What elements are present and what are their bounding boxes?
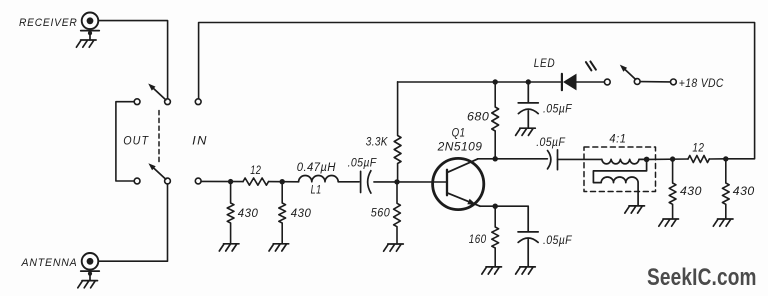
wire C5 to T1 primary xyxy=(558,158,602,160)
ground (receiver jack) xyxy=(76,40,96,47)
svg-text:0.47µH: 0.47µH xyxy=(297,160,336,174)
svg-text:IN: IN xyxy=(192,133,208,147)
resistor R4 3.3K xyxy=(394,82,401,182)
node T1 output junction xyxy=(644,157,650,163)
switch S2 pole terminal xyxy=(634,79,640,85)
node rail-R6 junction xyxy=(493,79,498,84)
transistor Q1 2N5109 xyxy=(433,158,484,209)
switch S1a terminal OUT-top xyxy=(134,99,140,105)
ground (R10) xyxy=(713,219,733,226)
svg-text:+18 VDC: +18 VDC xyxy=(679,76,724,90)
svg-text:560: 560 xyxy=(371,206,390,220)
capacitor C4 .05uF supply bypass xyxy=(518,82,538,128)
capacitor C5 .05uF coupling xyxy=(548,150,558,170)
node B junction xyxy=(280,179,285,184)
resistor R1 430 xyxy=(227,182,234,244)
resistor R5 560 xyxy=(394,182,401,244)
wire collector line to C5 xyxy=(478,158,548,160)
ground (C4) xyxy=(516,128,536,135)
resistor R10 430 xyxy=(722,159,729,219)
resistor R6 680 xyxy=(492,82,499,159)
svg-text:.05µF: .05µF xyxy=(543,233,573,247)
wire S2 pole to +18VDC terminal xyxy=(640,81,670,83)
switch S1a terminal IN-top xyxy=(195,99,201,105)
capacitor C3 .05uF emitter bypass xyxy=(518,206,538,267)
svg-text:OUT: OUT xyxy=(123,133,149,147)
node C junction xyxy=(394,179,399,184)
svg-text:2N5109: 2N5109 xyxy=(437,140,483,154)
connector J2 ANTENNA jack xyxy=(81,253,100,281)
LED D1 xyxy=(562,74,604,91)
capacitor C1 .05uF xyxy=(361,171,371,193)
node emitter junction xyxy=(493,204,498,209)
svg-text:3.3K: 3.3K xyxy=(366,134,388,148)
svg-text:Q1: Q1 xyxy=(452,126,466,140)
ground (R1) xyxy=(219,244,239,251)
resistor R7 160 xyxy=(492,206,499,267)
svg-text:430: 430 xyxy=(733,184,755,198)
wire S1b IN terminal to input node A xyxy=(201,180,243,182)
resistor R3 430 xyxy=(279,182,286,244)
wire receiver jack to switch S1a pole xyxy=(98,21,167,99)
svg-text:L1: L1 xyxy=(311,183,322,197)
svg-text:.05µF: .05µF xyxy=(543,101,573,115)
wire C1 to node C to Q1 base xyxy=(374,181,447,183)
ground (T1 secondary) xyxy=(625,206,645,213)
transformer T1 secondary winding xyxy=(593,159,646,205)
node E junction xyxy=(723,156,728,161)
wire S1b pole to antenna jack xyxy=(98,184,167,261)
ground (R5) xyxy=(384,244,404,251)
inductor L1 0.47uH xyxy=(299,176,339,182)
terminal +18 VDC xyxy=(671,79,677,85)
svg-text:12: 12 xyxy=(692,141,704,155)
switch S1b pole terminal xyxy=(165,178,171,184)
ground (R8) xyxy=(659,219,679,226)
svg-text:LED: LED xyxy=(534,56,555,70)
switch S1a pole terminal xyxy=(165,99,171,105)
svg-text:430: 430 xyxy=(238,206,258,220)
wire T1 to node D xyxy=(649,158,688,160)
svg-text:12: 12 xyxy=(250,163,261,177)
wire R2 to node B to L1 xyxy=(269,181,299,183)
svg-text:430: 430 xyxy=(680,184,702,198)
svg-text:.05µF: .05µF xyxy=(348,155,378,169)
mechanical linkage (dashed) xyxy=(158,111,160,164)
connector J1 RECEIVER jack xyxy=(81,12,100,40)
switch S1b blade arrow xyxy=(154,168,166,179)
wire supply rail (top of R4 across to LED) xyxy=(398,81,561,83)
node A junction xyxy=(228,179,233,184)
switch S1a blade arrow xyxy=(154,89,166,100)
resistor R9 12 xyxy=(688,156,709,163)
ground (R3) xyxy=(269,244,289,251)
svg-text:SeekIC.com: SeekIC.com xyxy=(647,265,757,291)
node D junction xyxy=(670,156,675,161)
svg-text:4:1: 4:1 xyxy=(609,131,626,145)
wire R9 to node E xyxy=(709,158,726,160)
svg-text:160: 160 xyxy=(469,232,487,246)
node rail-C4 junction xyxy=(526,79,531,84)
transformer T1 4:1 dashed outline xyxy=(584,147,656,192)
switch S1b terminal OUT-bottom xyxy=(134,178,140,184)
ground (R7) xyxy=(482,267,502,274)
ground (C3) xyxy=(516,267,536,274)
transformer T1 primary winding xyxy=(602,159,647,163)
svg-text:RECEIVER: RECEIVER xyxy=(19,17,78,29)
svg-text:ANTENNA: ANTENNA xyxy=(21,257,78,269)
svg-text:430: 430 xyxy=(291,206,312,220)
svg-text:680: 680 xyxy=(467,110,489,124)
wire emitter line xyxy=(480,205,528,207)
switch S1b terminal IN-bottom xyxy=(195,178,201,184)
LED light rays xyxy=(586,61,596,70)
node collector junction xyxy=(493,156,498,161)
wire top rail: S1a IN terminal up, across top, down right side to output node xyxy=(199,23,755,159)
switch S2 terminal (LED side) xyxy=(604,79,610,85)
ground (antenna jack) xyxy=(78,281,98,288)
switch S2 blade arrow xyxy=(625,70,635,80)
svg-text:.05µF: .05µF xyxy=(536,135,566,149)
wire L1 to C1 xyxy=(338,181,359,183)
resistor R2 12 xyxy=(243,178,269,185)
wire OUT bypass bracket xyxy=(116,102,134,181)
resistor R8 430 xyxy=(669,159,676,219)
